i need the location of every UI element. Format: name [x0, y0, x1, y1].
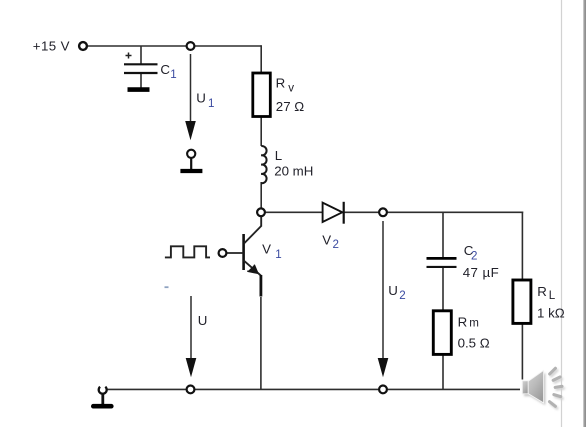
svg-text:m: m: [469, 317, 479, 330]
svg-text:47 µF: 47 µF: [463, 265, 500, 280]
svg-text:1: 1: [170, 68, 176, 81]
svg-text:v: v: [288, 81, 294, 94]
svg-text:+15 V: +15 V: [33, 39, 70, 54]
svg-text:U: U: [198, 313, 208, 328]
svg-text:C: C: [160, 62, 170, 77]
svg-text:L: L: [275, 148, 282, 163]
svg-text:R: R: [458, 315, 468, 330]
svg-text:R: R: [276, 76, 286, 91]
svg-text:2: 2: [471, 249, 477, 262]
svg-text:27 Ω: 27 Ω: [276, 99, 304, 114]
svg-text:V: V: [322, 232, 331, 247]
svg-text:2: 2: [333, 238, 339, 251]
svg-text:20 mH: 20 mH: [274, 163, 313, 178]
svg-text:U: U: [196, 91, 206, 106]
svg-text:L: L: [549, 289, 556, 302]
svg-text:V: V: [262, 242, 271, 257]
svg-text:1 kΩ: 1 kΩ: [537, 306, 565, 321]
svg-text:0.5 Ω: 0.5 Ω: [458, 335, 490, 350]
svg-text:1: 1: [208, 97, 214, 110]
svg-text:R: R: [537, 284, 547, 299]
svg-text:1: 1: [275, 248, 281, 261]
svg-text:2: 2: [399, 289, 405, 302]
svg-text:U: U: [388, 283, 398, 298]
